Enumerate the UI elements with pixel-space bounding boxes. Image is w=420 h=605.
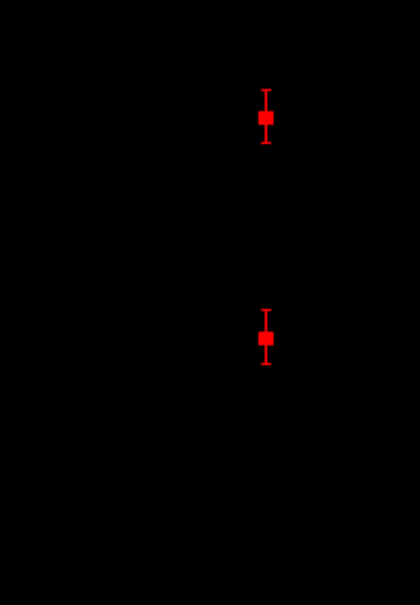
data point 2 top cap [261,309,271,311]
data point 1 square marker [258,111,273,125]
data point 1 top cap [261,89,271,91]
data point 1 bottom cap [261,142,271,144]
data point 2 error bar stem [265,310,268,364]
data point 2 bottom cap [261,363,271,365]
data point 2 square marker [258,332,273,346]
data point 1 error bar stem [265,90,268,143]
